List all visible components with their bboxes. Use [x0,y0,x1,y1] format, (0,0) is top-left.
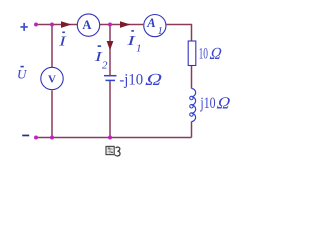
svg-text:U: U [17,67,28,82]
svg-text:Ω: Ω [144,70,163,89]
svg-text:j10: j10 [200,95,216,112]
svg-text:10: 10 [199,46,208,63]
svg-text:A: A [146,16,155,30]
svg-text:Ω: Ω [216,94,232,113]
svg-text:I: I [58,35,68,50]
svg-text:-j10: -j10 [119,71,143,88]
svg-text:V: V [48,74,56,86]
svg-text:1: 1 [158,26,163,37]
svg-text:Ω: Ω [209,44,223,63]
svg-text:2: 2 [102,60,108,72]
svg-text:A: A [82,18,91,32]
svg-text:1: 1 [136,42,142,54]
